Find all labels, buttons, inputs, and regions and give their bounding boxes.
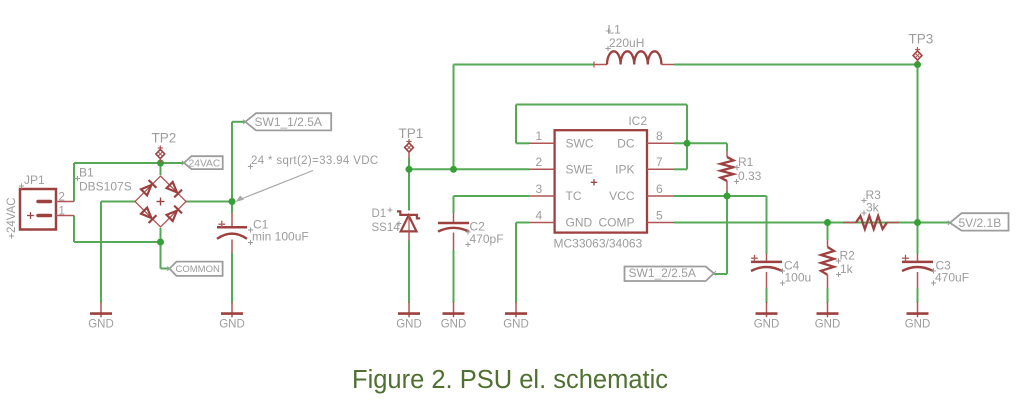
svg-text:TP3: TP3 bbox=[909, 32, 934, 47]
svg-text:24 * sqrt(2)=33.94 VDC: 24 * sqrt(2)=33.94 VDC bbox=[251, 155, 379, 167]
svg-text:MC33063/34063: MC33063/34063 bbox=[554, 237, 643, 251]
svg-text:24VAC: 24VAC bbox=[6, 197, 18, 233]
svg-text:TP2: TP2 bbox=[152, 131, 177, 146]
svg-text:TP1: TP1 bbox=[399, 126, 424, 141]
svg-text:DBS107S: DBS107S bbox=[79, 180, 132, 194]
svg-text:220uH: 220uH bbox=[609, 36, 644, 50]
svg-text:470uF: 470uF bbox=[935, 271, 969, 285]
svg-text:IC2: IC2 bbox=[628, 114, 647, 128]
svg-text:GND: GND bbox=[441, 319, 467, 331]
svg-text:7: 7 bbox=[656, 155, 663, 169]
svg-text:JP1: JP1 bbox=[24, 173, 45, 187]
svg-text:2: 2 bbox=[536, 155, 543, 169]
svg-text:COMP: COMP bbox=[599, 216, 635, 230]
svg-text:6: 6 bbox=[656, 182, 663, 196]
svg-text:SWE: SWE bbox=[566, 162, 593, 176]
svg-text:SW1_2/2.5A: SW1_2/2.5A bbox=[629, 266, 696, 280]
svg-text:5: 5 bbox=[656, 208, 663, 222]
svg-text:GND: GND bbox=[88, 319, 114, 331]
svg-text:SS14: SS14 bbox=[372, 222, 401, 234]
svg-text:R2: R2 bbox=[840, 249, 856, 263]
svg-text:1k: 1k bbox=[840, 262, 854, 276]
svg-text:COMMON: COMMON bbox=[176, 264, 220, 275]
svg-text:L1: L1 bbox=[608, 23, 622, 37]
svg-text:GND: GND bbox=[815, 319, 841, 331]
svg-text:VCC: VCC bbox=[609, 189, 635, 203]
svg-text:R1: R1 bbox=[738, 155, 754, 169]
svg-text:2: 2 bbox=[59, 192, 65, 204]
svg-text:Figure 2. PSU el. schematic: Figure 2. PSU el. schematic bbox=[352, 366, 668, 394]
svg-text:GND: GND bbox=[754, 319, 780, 331]
svg-text:D1: D1 bbox=[372, 208, 387, 220]
svg-text:4: 4 bbox=[536, 208, 543, 222]
svg-text:SWC: SWC bbox=[566, 136, 594, 150]
svg-text:3k: 3k bbox=[866, 201, 880, 215]
svg-text:SW1_1/2.5A: SW1_1/2.5A bbox=[255, 115, 322, 129]
svg-text:5V/2.1B: 5V/2.1B bbox=[959, 216, 1002, 230]
svg-text:IPK: IPK bbox=[615, 162, 634, 176]
svg-text:8: 8 bbox=[656, 129, 663, 143]
svg-text:min 100uF: min 100uF bbox=[252, 230, 309, 244]
svg-text:DC: DC bbox=[617, 136, 635, 150]
svg-text:TC: TC bbox=[566, 189, 582, 203]
svg-text:100u: 100u bbox=[785, 271, 812, 285]
svg-text:0.33: 0.33 bbox=[738, 169, 762, 183]
svg-text:GND: GND bbox=[905, 319, 931, 331]
svg-text:470pF: 470pF bbox=[470, 232, 504, 246]
svg-text:GND: GND bbox=[219, 319, 245, 331]
svg-text:1: 1 bbox=[536, 129, 543, 143]
svg-text:B1: B1 bbox=[79, 166, 94, 180]
svg-text:GND: GND bbox=[503, 319, 529, 331]
svg-text:3: 3 bbox=[536, 182, 543, 196]
svg-text:GND: GND bbox=[566, 216, 593, 230]
svg-text:1: 1 bbox=[59, 206, 65, 218]
svg-text:GND: GND bbox=[396, 319, 422, 331]
svg-text:24VAC: 24VAC bbox=[189, 159, 221, 170]
